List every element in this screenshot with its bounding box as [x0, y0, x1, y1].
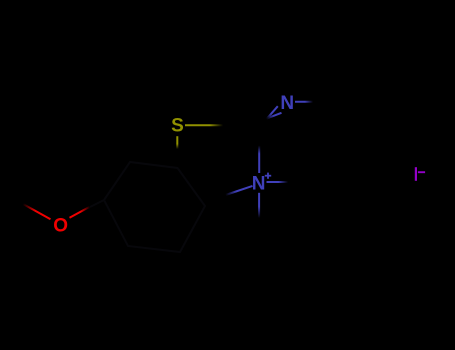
bond S1-C2 (yellow half): [185, 124, 223, 126]
double bond C2=N line b (blue half): [267, 113, 282, 119]
bond S1-C7a (yellow half): [176, 136, 178, 149]
svg-text:N: N: [280, 93, 294, 114]
bond O-CH3 (red half): [23, 204, 51, 219]
bond N-CH3 (blue half): [295, 101, 313, 103]
bond N3-C3a diagonal (blue half): [226, 186, 253, 195]
bond N3-CH3 right (blue half): [267, 181, 289, 183]
charge - on iodide: [418, 171, 425, 173]
charge + on N3: [265, 173, 271, 179]
bond N3-C2 (blue half): [258, 146, 260, 174]
svg-text:O: O: [53, 216, 68, 237]
double bond C2=N line a (blue half): [266, 106, 278, 119]
svg-text:S: S: [171, 115, 184, 136]
bond N3-CH3 down (blue half): [258, 193, 260, 218]
svg-text:N: N: [252, 173, 266, 194]
benzene ring: [104, 162, 205, 252]
wire C3a-C4 etc already in ring; bond C6-O direction: [88, 200, 104, 208]
iodide counterion I- label: [415, 167, 417, 181]
bond O-C6 (red half): [70, 207, 91, 218]
invisible carbon skeleton (black-on-black, as in source): [88, 162, 205, 252]
